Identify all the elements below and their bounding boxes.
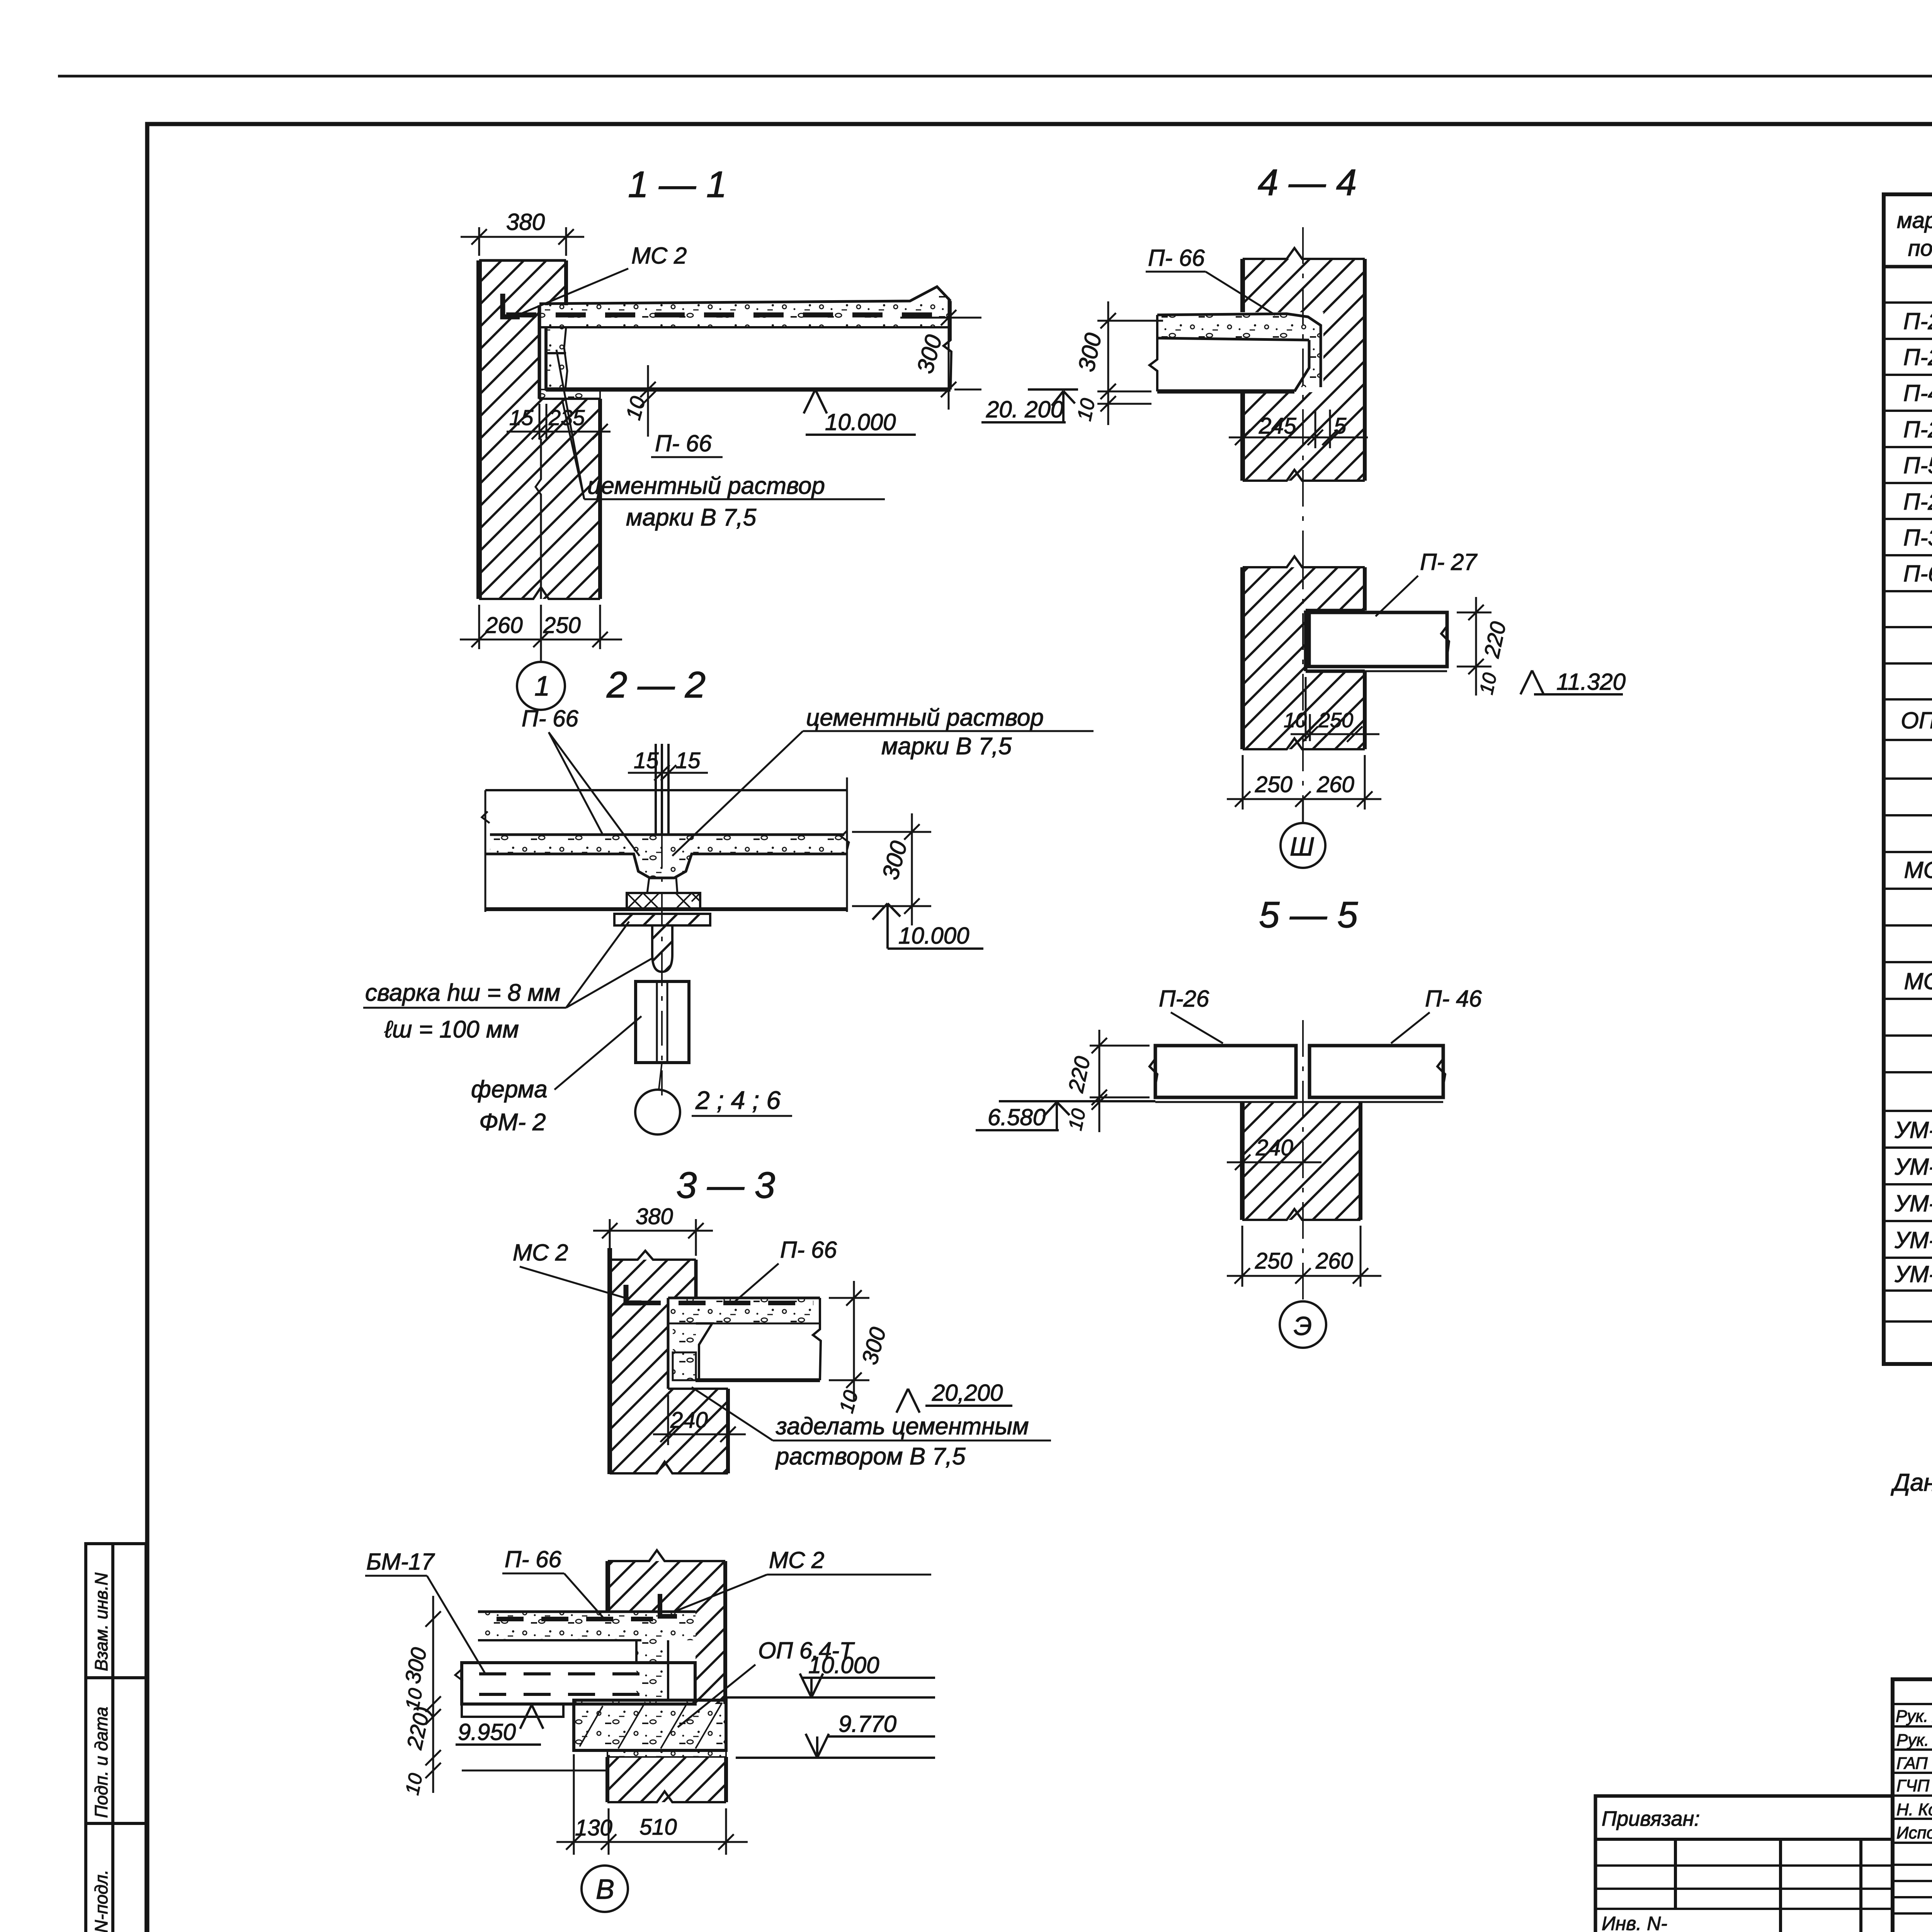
- svg-text:235: 235: [548, 405, 585, 430]
- svg-text:2 — 2: 2 — 2: [606, 664, 706, 706]
- svg-text:марка: марка: [1897, 208, 1932, 233]
- svg-text:заделать цементным: заделать цементным: [776, 1413, 1029, 1440]
- svg-text:9.950: 9.950: [458, 1719, 516, 1745]
- svg-text:П- 66: П- 66: [655, 430, 712, 456]
- page top edge line: [58, 75, 1932, 78]
- svg-text:130: 130: [575, 1815, 612, 1840]
- wall hatched (Э): [1242, 1102, 1361, 1220]
- axis circle Э: [1280, 1301, 1326, 1348]
- svg-text:Данный чертеж см. совмес: Данный чертеж см. совместно с листом КЖ-…: [1891, 1469, 1932, 1496]
- svg-text:2 ; 4 ; 6: 2 ; 4 ; 6: [695, 1086, 781, 1114]
- svg-text:УМ-44: УМ-44: [1894, 1261, 1932, 1287]
- svg-text:П- 27: П- 27: [1420, 549, 1478, 575]
- svg-text:1: 1: [534, 671, 550, 702]
- left dims (В): [425, 1596, 441, 1793]
- svg-text:цементный раствор: цементный раствор: [587, 473, 825, 499]
- svg-text:5: 5: [1334, 413, 1347, 439]
- svg-text:10: 10: [1073, 396, 1100, 423]
- svg-text:ферма: ферма: [471, 1076, 548, 1103]
- svg-text:Рук. КБ-1: Рук. КБ-1: [1896, 1731, 1932, 1750]
- slab П-27 (Ш): [1309, 612, 1449, 671]
- ОП 6.4-Т block (В): [574, 1700, 726, 1750]
- bottom thin line (В): [462, 1770, 607, 1772]
- elevation 9.950 (В): [456, 1705, 543, 1745]
- title block: signature table grid: [1893, 1679, 1932, 1932]
- dim 250 260 (Ш): [1227, 755, 1381, 810]
- dim 130 510 (В): [556, 1754, 748, 1855]
- svg-text:Привязан:: Привязан:: [1602, 1807, 1700, 1830]
- axis dash-dot (2-2): [661, 773, 663, 1095]
- elevation 11.320 (Ш): [1520, 670, 1623, 694]
- axis circle Ш: [1302, 799, 1304, 823]
- svg-text:цементный раствор: цементный раствор: [806, 704, 1044, 731]
- specification table grid: [1884, 194, 1932, 1364]
- wall hatched lower (В): [607, 1757, 726, 1802]
- MC2 bracket (3-3): [626, 1285, 641, 1303]
- svg-text:МС1: МС1: [1904, 857, 1932, 883]
- svg-text:250: 250: [1255, 1248, 1293, 1274]
- svg-text:4 — 4: 4 — 4: [1258, 162, 1357, 203]
- svg-text:10: 10: [1064, 1107, 1090, 1132]
- dashed line (3-3): [634, 1301, 813, 1305]
- wall inner joint line (1-1): [536, 439, 541, 599]
- wall hatched (4-4): [1243, 248, 1365, 481]
- svg-text:Э: Э: [1294, 1311, 1312, 1341]
- svg-text:В: В: [596, 1874, 614, 1905]
- dim 220 (Ш): [1457, 597, 1492, 696]
- elevation 20.200 (4-4): [981, 389, 1078, 423]
- axis dash-dot (4-4): [1302, 227, 1304, 564]
- svg-text:380: 380: [636, 1204, 673, 1229]
- grout neck and anchor plate (2-2): [627, 878, 700, 909]
- dim 15 235 (1-1): [507, 404, 611, 439]
- slab П-66 body (4-4): [1150, 315, 1309, 391]
- svg-text:20,200: 20,200: [932, 1380, 1003, 1406]
- dim 10 250 (Ш): [1291, 677, 1379, 742]
- attachment table (Привязан): [1595, 1796, 1893, 1932]
- axis circle В: [582, 1866, 628, 1912]
- dim 300 (2-2): [852, 813, 931, 925]
- svg-text:УМ-31: УМ-31: [1894, 1154, 1932, 1180]
- right end vertical (2-2): [846, 777, 848, 912]
- bearing plate (2-2): [614, 914, 710, 972]
- screed band (В): [478, 1612, 696, 1640]
- svg-text:ФМ- 2: ФМ- 2: [479, 1109, 546, 1136]
- node circle 2;4;6: [635, 1090, 680, 1134]
- left end vertical (2-2): [485, 790, 486, 912]
- svg-text:П- 66: П- 66: [522, 706, 578, 731]
- slab П-26 (5-5): [1150, 1046, 1296, 1097]
- svg-text:510: 510: [639, 1815, 677, 1840]
- svg-text:раствором В 7,5: раствором В 7,5: [775, 1443, 966, 1470]
- svg-text:П-46: П-46: [1903, 380, 1932, 406]
- slab edge rib (3-3): [673, 1323, 712, 1380]
- wall hatched (Ш): [1243, 556, 1365, 749]
- beam БМ-17 (В): [455, 1663, 695, 1717]
- slab П-66 body (1-1): [546, 301, 951, 389]
- dim 380 (3-3): [593, 1219, 713, 1256]
- axis dash-dot (Ш): [1302, 553, 1304, 799]
- signature table labels: [1896, 1707, 1932, 1842]
- svg-text:П-26: П-26: [1159, 986, 1209, 1012]
- table header texts: [1897, 206, 1932, 261]
- screed band (1-1): [539, 287, 951, 327]
- svg-text:10: 10: [1475, 671, 1501, 696]
- elevation 20.200 (3-3): [896, 1389, 1012, 1413]
- under-slab joint line (5-5): [1155, 1101, 1443, 1103]
- slab dashed anchor line (1-1): [506, 313, 939, 318]
- svg-text:Ш: Ш: [1290, 832, 1314, 861]
- svg-text:УМ-43: УМ-43: [1894, 1227, 1932, 1253]
- slab top line (2-2): [485, 789, 847, 791]
- svg-text:Подп. и дата: Подп. и дата: [91, 1707, 111, 1818]
- left stamp table: [86, 1544, 146, 1932]
- svg-text:сварка hш = 8 мм: сварка hш = 8 мм: [365, 980, 560, 1006]
- svg-text:15: 15: [509, 405, 534, 430]
- svg-text:П- 66: П- 66: [1148, 245, 1205, 271]
- dim 245 5 (4-4): [1229, 398, 1368, 448]
- svg-text:Исполн.: Исполн.: [1896, 1823, 1932, 1842]
- table body texts: [1894, 271, 1932, 1287]
- svg-text:марки В 7,5: марки В 7,5: [881, 733, 1012, 760]
- svg-text:380: 380: [506, 209, 545, 235]
- dim 15 15 (2-2): [628, 765, 708, 781]
- svg-text:Инв. N-подл.: Инв. N-подл.: [91, 1870, 111, 1932]
- svg-text:П-25: П-25: [1903, 417, 1932, 442]
- grout seam verticals (2-2): [656, 744, 668, 835]
- svg-text:10: 10: [401, 1771, 427, 1797]
- svg-text:поз.: поз.: [1908, 236, 1932, 261]
- svg-text:П-54: П-54: [1903, 452, 1932, 478]
- svg-text:6.580: 6.580: [988, 1104, 1046, 1130]
- elevation 9.770 (В): [736, 1734, 935, 1758]
- svg-text:240: 240: [1255, 1135, 1293, 1160]
- svg-text:245: 245: [1259, 413, 1297, 439]
- axis circle 1: [540, 649, 542, 662]
- svg-text:250: 250: [543, 613, 581, 638]
- svg-text:марки В 7,5: марки В 7,5: [626, 504, 757, 531]
- slab body (3-3): [696, 1298, 821, 1380]
- svg-text:ГАП: ГАП: [1896, 1754, 1928, 1773]
- screed band (3-3): [668, 1298, 820, 1323]
- svg-text:250: 250: [1255, 772, 1293, 797]
- svg-text:Взам. инв.N: Взам. инв.N: [91, 1572, 111, 1671]
- svg-text:УМ-30: УМ-30: [1894, 1117, 1932, 1143]
- svg-text:УМ-32: УМ-32: [1894, 1190, 1932, 1216]
- svg-text:П-26: П-26: [1903, 308, 1932, 334]
- dim 250 260 (Э): [1227, 1226, 1381, 1287]
- wall hatched upper (В): [608, 1550, 725, 1704]
- slab bottom line (2-2): [485, 907, 847, 911]
- svg-text:10.000: 10.000: [808, 1652, 879, 1678]
- bearing pad (3-3): [673, 1352, 696, 1380]
- svg-text:БМ-17: БМ-17: [366, 1549, 435, 1575]
- dim 240 (3-3): [653, 1395, 746, 1445]
- svg-text:3 — 3: 3 — 3: [676, 1165, 775, 1206]
- svg-text:МС 2: МС 2: [513, 1240, 568, 1265]
- svg-text:П-23: П-23: [1903, 344, 1932, 370]
- dim 10 joint (1-1): [640, 365, 656, 437]
- elevation 10.000 (В): [725, 1673, 935, 1697]
- screed band (4-4): [1157, 314, 1321, 387]
- svg-text:11.320: 11.320: [1556, 669, 1626, 695]
- svg-text:П- 66: П- 66: [780, 1237, 837, 1263]
- svg-text:МС 2: МС 2: [769, 1547, 824, 1573]
- truss chord (2-2): [636, 981, 689, 1063]
- svg-text:ОП-1: ОП-1: [1901, 707, 1932, 733]
- dim 300 (4-4): [1097, 301, 1163, 425]
- dashed anchor line (В): [497, 1617, 653, 1621]
- svg-text:Инв. N-: Инв. N-: [1602, 1913, 1667, 1932]
- svg-text:240: 240: [670, 1408, 708, 1433]
- svg-text:1 — 1: 1 — 1: [628, 164, 727, 205]
- svg-text:П- 66: П- 66: [505, 1546, 561, 1572]
- svg-text:МС 2: МС 2: [631, 243, 687, 269]
- wall hatched upper (1-1): [479, 260, 566, 599]
- svg-text:15: 15: [675, 748, 701, 773]
- svg-text:20. 200: 20. 200: [986, 396, 1063, 422]
- svg-text:ℓш = 100 мм: ℓш = 100 мм: [384, 1016, 519, 1043]
- slab П-46 (5-5): [1310, 1046, 1445, 1097]
- MC2 bracket (В): [660, 1594, 677, 1616]
- elevation 10.000 (1-1): [804, 389, 916, 435]
- MC2 bracket symbol (1-1): [503, 294, 520, 317]
- dim 300 (3-3): [829, 1281, 869, 1401]
- bearing mortar pad (1-1): [539, 389, 600, 399]
- svg-text:П-27: П-27: [1903, 489, 1932, 515]
- left break mark (2-2): [482, 811, 490, 823]
- svg-text:5 — 5: 5 — 5: [1259, 894, 1358, 935]
- dim 300 right (1-1): [900, 298, 981, 410]
- svg-text:Рук. АБ-1: Рук. АБ-1: [1896, 1707, 1932, 1726]
- svg-text:МС2: МС2: [1904, 968, 1932, 994]
- svg-text:260: 260: [1315, 1248, 1353, 1274]
- right break mark (2-2): [841, 831, 849, 850]
- svg-text:10.000: 10.000: [825, 409, 896, 435]
- svg-text:260: 260: [485, 613, 523, 638]
- svg-text:П-66: П-66: [1903, 561, 1932, 587]
- screed band (2-2): [485, 835, 847, 878]
- svg-text:9.770: 9.770: [838, 1711, 896, 1737]
- svg-text:260: 260: [1316, 772, 1354, 797]
- elevation 10.000 (2-2): [872, 903, 983, 949]
- axis dash-dot (Э): [1302, 1020, 1304, 1301]
- slab edge rib (1-1): [546, 327, 567, 389]
- dimension 380 (1-1): [461, 227, 584, 256]
- svg-text:П-35: П-35: [1903, 525, 1932, 551]
- mortar strip under block (В): [607, 1750, 726, 1757]
- dim 240 (Э): [1227, 1155, 1321, 1170]
- svg-text:Н. Контр.: Н. Контр.: [1896, 1800, 1932, 1819]
- dim 260 250 (1-1): [460, 605, 622, 649]
- dim 220 left (5-5): [1090, 1030, 1150, 1132]
- svg-text:П- 46: П- 46: [1425, 986, 1482, 1012]
- svg-text:250: 250: [1318, 709, 1353, 732]
- svg-text:ГЧП: ГЧП: [1896, 1776, 1930, 1795]
- svg-text:10.000: 10.000: [898, 923, 969, 949]
- wall hatched (3-3): [610, 1248, 728, 1474]
- elevation 6.580 (5-5): [976, 1101, 1155, 1130]
- wall hatched lower (1-1): [479, 399, 600, 599]
- slab edge rib dotted (В): [636, 1640, 668, 1700]
